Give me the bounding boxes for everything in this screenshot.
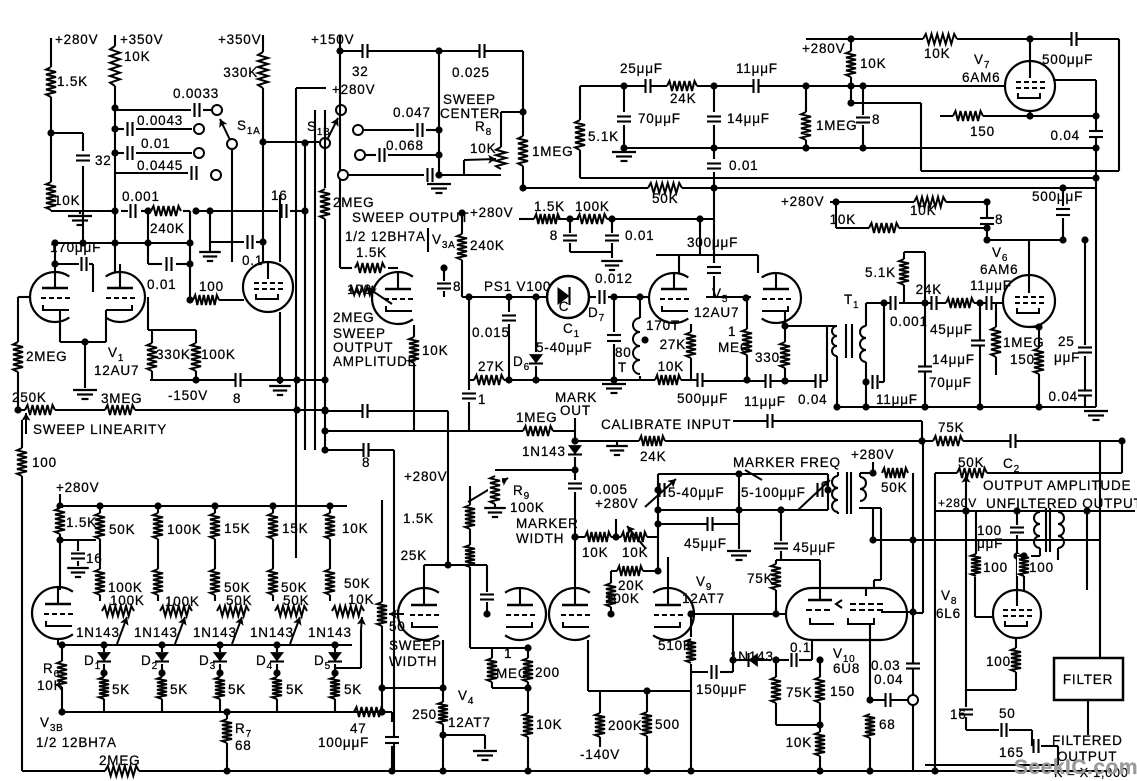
svg-text:100K: 100K: [165, 594, 200, 609]
svg-text:12AT7: 12AT7: [448, 715, 491, 730]
svg-text:14μμF: 14μμF: [727, 111, 770, 126]
svg-text:25μμF: 25μμF: [620, 61, 663, 76]
svg-text:SWEEP LINEARITY: SWEEP LINEARITY: [33, 422, 167, 437]
svg-text:47: 47: [350, 721, 367, 736]
svg-text:WIDTH: WIDTH: [389, 654, 437, 669]
svg-text:OUTPUT: OUTPUT: [333, 340, 393, 355]
svg-text:0.0445: 0.0445: [137, 158, 183, 173]
svg-text:8: 8: [872, 112, 880, 127]
svg-text:200: 200: [535, 665, 560, 680]
svg-text:CENTER: CENTER: [440, 106, 500, 121]
svg-text:+350V: +350V: [120, 32, 163, 47]
svg-text:SWEEP: SWEEP: [443, 92, 496, 107]
svg-text:8: 8: [233, 391, 241, 406]
svg-text:SWEEP OUTPUT: SWEEP OUTPUT: [352, 210, 469, 225]
svg-text:100μμF: 100μμF: [318, 735, 369, 750]
svg-text:0.0043: 0.0043: [137, 113, 183, 128]
svg-text:1.5K: 1.5K: [534, 199, 565, 214]
svg-text:27K: 27K: [478, 359, 504, 374]
svg-text:68: 68: [235, 738, 252, 753]
svg-text:150: 150: [830, 684, 855, 699]
svg-text:75K: 75K: [938, 420, 964, 435]
svg-text:CALIBRATE INPUT: CALIBRATE INPUT: [601, 417, 731, 432]
svg-text:+280V: +280V: [56, 480, 99, 495]
svg-text:500μμF: 500μμF: [1032, 189, 1083, 204]
svg-text:150: 150: [1010, 352, 1035, 367]
svg-text:50: 50: [999, 706, 1016, 721]
svg-text:-140V: -140V: [580, 747, 620, 762]
svg-text:8: 8: [995, 212, 1003, 227]
svg-text:50K: 50K: [344, 576, 370, 591]
svg-text:330K: 330K: [156, 347, 191, 362]
svg-text:5-100μμF: 5-100μμF: [741, 485, 806, 500]
svg-text:0.1: 0.1: [790, 640, 811, 655]
svg-text:MEG: MEG: [718, 340, 751, 355]
svg-text:80: 80: [615, 345, 632, 360]
svg-text:SWEEP: SWEEP: [389, 638, 442, 653]
svg-text:32: 32: [352, 64, 369, 79]
svg-text:16: 16: [950, 707, 967, 722]
svg-text:0.012: 0.012: [595, 271, 633, 286]
svg-text:0.01: 0.01: [625, 228, 654, 243]
svg-text:10K: 10K: [54, 193, 80, 208]
svg-text:WIDTH: WIDTH: [516, 531, 564, 546]
svg-text:MARKER FREQ: MARKER FREQ: [733, 455, 841, 470]
svg-text:+280V: +280V: [55, 32, 98, 47]
svg-text:1: 1: [504, 646, 512, 661]
svg-text:250K: 250K: [12, 390, 47, 405]
svg-text:10K: 10K: [124, 49, 150, 64]
svg-text:75K: 75K: [786, 685, 812, 700]
svg-text:250: 250: [412, 707, 437, 722]
svg-text:10K: 10K: [536, 717, 562, 732]
svg-text:25K: 25K: [401, 548, 427, 563]
svg-text:14μμF: 14μμF: [932, 352, 975, 367]
svg-text:0.01: 0.01: [147, 277, 176, 292]
svg-text:1MEG: 1MEG: [516, 410, 557, 425]
svg-text:10K: 10K: [348, 592, 374, 607]
svg-text:6AM6: 6AM6: [962, 70, 1000, 85]
svg-text:0.01: 0.01: [729, 158, 758, 173]
svg-text:75K: 75K: [747, 571, 773, 586]
svg-text:MEG: MEG: [496, 666, 529, 681]
svg-text:10K: 10K: [786, 735, 812, 750]
svg-text:+280V: +280V: [802, 41, 845, 56]
svg-text:2MEG: 2MEG: [99, 753, 140, 768]
svg-text:0.1: 0.1: [242, 253, 263, 268]
svg-text:11μμF: 11μμF: [970, 278, 1012, 293]
svg-text:1N143: 1N143: [134, 625, 178, 640]
svg-text:10K: 10K: [37, 678, 63, 693]
svg-text:1.5K: 1.5K: [66, 515, 97, 530]
svg-text:5-40μμF: 5-40μμF: [668, 485, 724, 500]
svg-text:1N143: 1N143: [730, 649, 774, 664]
svg-text:330: 330: [755, 350, 780, 365]
svg-text:0.005: 0.005: [590, 482, 628, 497]
svg-text:1N143: 1N143: [308, 625, 352, 640]
svg-text:240K: 240K: [470, 238, 505, 253]
svg-text:3MEG: 3MEG: [101, 391, 142, 406]
svg-text:+350V: +350V: [218, 32, 261, 47]
svg-text:24K: 24K: [640, 449, 666, 464]
svg-text:100: 100: [983, 560, 1008, 575]
svg-text:50K: 50K: [226, 593, 252, 608]
svg-text:5-40μμF: 5-40μμF: [536, 340, 592, 355]
svg-text:1.5K: 1.5K: [356, 245, 387, 260]
svg-text:100K: 100K: [575, 199, 610, 214]
svg-text:+280V: +280V: [404, 469, 447, 484]
svg-text:11μμF: 11μμF: [736, 61, 778, 76]
svg-text:50K: 50K: [109, 522, 135, 537]
svg-text:5K: 5K: [286, 682, 304, 697]
svg-text:0.04: 0.04: [874, 672, 903, 687]
svg-text:10K: 10K: [924, 46, 950, 61]
svg-text:11μμF: 11μμF: [744, 394, 786, 409]
svg-text:5.1K: 5.1K: [588, 129, 619, 144]
svg-text:10K: 10K: [422, 343, 448, 358]
svg-text:0.04: 0.04: [1051, 128, 1080, 143]
svg-text:100: 100: [32, 455, 57, 470]
svg-text:45μμF: 45μμF: [930, 322, 973, 337]
svg-text:100K: 100K: [605, 591, 640, 606]
svg-text:100: 100: [986, 654, 1011, 669]
svg-text:10K: 10K: [622, 545, 648, 560]
svg-text:45μμF: 45μμF: [684, 536, 727, 551]
svg-text:1N143: 1N143: [193, 625, 237, 640]
svg-text:AMPLITUDE: AMPLITUDE: [333, 354, 417, 369]
svg-text:50K: 50K: [958, 455, 984, 470]
svg-text:100: 100: [347, 282, 372, 297]
svg-text:0.01: 0.01: [141, 136, 170, 151]
svg-text:0.001: 0.001: [122, 189, 160, 204]
svg-text:SeekIC.com: SeekIC.com: [1014, 756, 1137, 779]
svg-text:50: 50: [389, 619, 406, 634]
svg-text:+280V: +280V: [332, 82, 375, 97]
svg-text:27K: 27K: [660, 337, 686, 352]
svg-text:300μμF: 300μμF: [687, 235, 738, 250]
svg-text:170μμF: 170μμF: [50, 240, 101, 255]
svg-text:0.04: 0.04: [798, 392, 827, 407]
svg-text:1: 1: [728, 324, 736, 339]
svg-text:16: 16: [86, 551, 103, 566]
svg-text:12AU7: 12AU7: [94, 363, 139, 378]
svg-text:8: 8: [550, 228, 558, 243]
svg-text:6U8: 6U8: [833, 661, 860, 676]
svg-text:2MEG: 2MEG: [26, 349, 67, 364]
svg-text:32: 32: [95, 153, 112, 168]
svg-text:0.04: 0.04: [1049, 389, 1078, 404]
svg-text:0.001: 0.001: [890, 314, 928, 329]
svg-text:25: 25: [1058, 334, 1075, 349]
svg-text:FILTER: FILTER: [1063, 672, 1113, 687]
svg-text:1MEG: 1MEG: [816, 118, 857, 133]
svg-text:45μμF: 45μμF: [793, 540, 836, 555]
svg-text:500μμF: 500μμF: [677, 391, 728, 406]
svg-text:10K: 10K: [860, 56, 886, 71]
svg-text:0.015: 0.015: [472, 325, 510, 340]
svg-text:12AU7: 12AU7: [694, 305, 739, 320]
svg-text:5K: 5K: [170, 682, 188, 697]
svg-text:24K: 24K: [670, 91, 696, 106]
svg-text:6L6: 6L6: [936, 606, 961, 621]
svg-text:10K: 10K: [470, 141, 496, 156]
svg-text:15K: 15K: [224, 521, 250, 536]
svg-text:50K: 50K: [283, 593, 309, 608]
svg-text:0.068: 0.068: [386, 138, 424, 153]
svg-text:11μμF: 11μμF: [876, 392, 918, 407]
svg-text:+280V: +280V: [781, 194, 824, 209]
svg-text:0.0033: 0.0033: [173, 86, 219, 101]
svg-text:-150V: -150V: [168, 388, 208, 403]
svg-text:500: 500: [655, 717, 680, 732]
svg-text:1N143: 1N143: [522, 444, 566, 459]
svg-text:0.03: 0.03: [871, 658, 900, 673]
svg-text:1.5K: 1.5K: [403, 511, 434, 526]
svg-text:10K: 10K: [582, 545, 608, 560]
svg-text:50K: 50K: [652, 191, 678, 206]
svg-text:70μμF: 70μμF: [929, 375, 972, 390]
svg-text:10K: 10K: [658, 359, 684, 374]
svg-text:1/2 12BH7A: 1/2 12BH7A: [36, 735, 117, 750]
svg-text:100K: 100K: [167, 522, 202, 537]
svg-text:100K: 100K: [110, 593, 145, 608]
svg-text:0.025: 0.025: [452, 65, 490, 80]
svg-text:OUTPUT AMPLITUDE: OUTPUT AMPLITUDE: [983, 478, 1131, 493]
svg-text:5.1K: 5.1K: [865, 265, 896, 280]
svg-text:+280V: +280V: [595, 496, 638, 511]
svg-text:510K: 510K: [658, 638, 693, 653]
svg-text:5K: 5K: [112, 682, 130, 697]
svg-text:100K: 100K: [510, 500, 545, 515]
svg-text:1/2 12BH7A: 1/2 12BH7A: [345, 229, 426, 244]
svg-text:170T: 170T: [646, 318, 680, 333]
svg-text:1N143: 1N143: [76, 625, 120, 640]
svg-text:6AM6: 6AM6: [980, 262, 1018, 277]
svg-text:PS1 V100: PS1 V100: [484, 279, 551, 294]
svg-text:1MEG: 1MEG: [1003, 335, 1044, 350]
svg-text:+280V: +280V: [938, 496, 977, 510]
svg-text:+280V: +280V: [470, 205, 513, 220]
svg-text:100: 100: [199, 279, 224, 294]
svg-text:UNFILTERED OUTPUT: UNFILTERED OUTPUT: [986, 496, 1137, 511]
svg-text:1: 1: [478, 392, 486, 407]
svg-text:2MEG: 2MEG: [333, 310, 374, 325]
svg-text:MARKER: MARKER: [516, 516, 579, 531]
svg-text:0.047: 0.047: [393, 105, 431, 120]
svg-text:8: 8: [453, 279, 461, 294]
svg-text:10K: 10K: [830, 212, 856, 227]
svg-text:500μμF: 500μμF: [1042, 52, 1093, 67]
svg-text:FILTERED: FILTERED: [1052, 733, 1123, 748]
svg-text:50K: 50K: [881, 480, 907, 495]
svg-text:μμF: μμF: [1054, 350, 1080, 365]
svg-text:μμF: μμF: [977, 536, 1003, 551]
svg-text:OUT: OUT: [560, 403, 591, 418]
svg-text:5K: 5K: [228, 682, 246, 697]
svg-text:2MEG: 2MEG: [333, 195, 374, 210]
svg-text:100K: 100K: [201, 347, 236, 362]
svg-text:SWEEP: SWEEP: [333, 326, 386, 341]
svg-text:8: 8: [362, 455, 370, 470]
svg-text:1.5K: 1.5K: [57, 74, 88, 89]
svg-text:1MEG: 1MEG: [532, 144, 573, 159]
svg-text:68: 68: [879, 717, 896, 732]
svg-text:100: 100: [1029, 560, 1054, 575]
svg-text:24K: 24K: [916, 282, 942, 297]
svg-text:150: 150: [970, 124, 995, 139]
svg-text:150μμF: 150μμF: [696, 682, 747, 697]
svg-text:70μμF: 70μμF: [638, 111, 681, 126]
svg-text:200K: 200K: [608, 718, 643, 733]
svg-text:10K: 10K: [342, 521, 368, 536]
svg-text:T: T: [618, 360, 627, 375]
svg-text:C: C: [559, 299, 570, 314]
svg-text:16: 16: [271, 188, 288, 203]
svg-text:15K: 15K: [282, 521, 308, 536]
svg-text:+280V: +280V: [851, 447, 894, 462]
svg-text:240K: 240K: [150, 221, 185, 236]
svg-text:5K: 5K: [344, 682, 362, 697]
svg-text:330K: 330K: [223, 65, 258, 80]
svg-text:1N143: 1N143: [250, 625, 294, 640]
svg-text:+150V: +150V: [311, 32, 354, 47]
svg-text:10K: 10K: [910, 203, 936, 218]
svg-text:12AT7: 12AT7: [682, 591, 725, 606]
